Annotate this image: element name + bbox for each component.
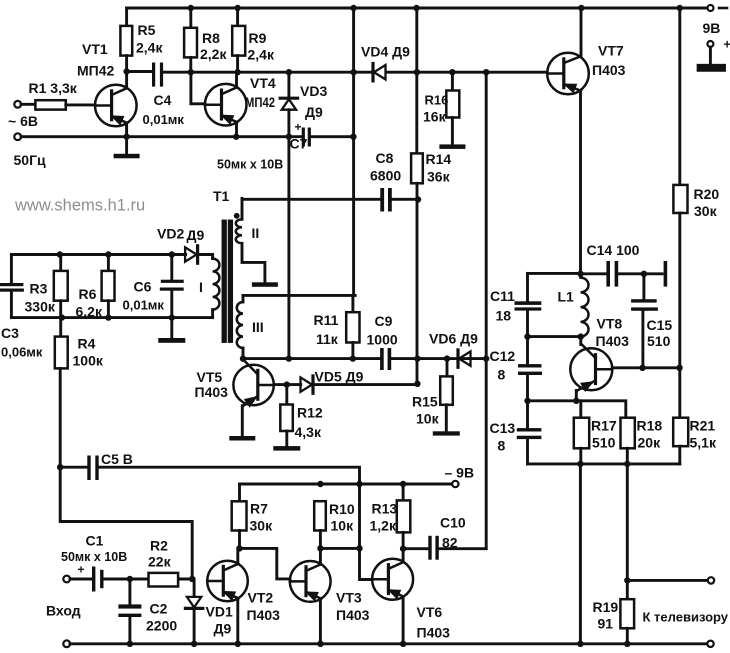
svg-text:Д9: Д9 (214, 621, 232, 637)
svg-text:91: 91 (598, 616, 614, 632)
svg-text:10к: 10к (416, 411, 440, 427)
svg-text:R8: R8 (202, 30, 220, 46)
svg-text:C2: C2 (150, 601, 168, 617)
svg-text:R7: R7 (250, 501, 268, 517)
svg-text:VD1: VD1 (206, 604, 233, 620)
svg-text:МП42: МП42 (77, 63, 115, 79)
svg-text:1000: 1000 (367, 332, 398, 348)
svg-text:П403: П403 (247, 607, 281, 623)
svg-text:R17: R17 (591, 418, 617, 434)
svg-text:VT7: VT7 (598, 43, 624, 59)
svg-text:VD3: VD3 (300, 83, 327, 99)
svg-text:C8: C8 (376, 150, 394, 166)
svg-text:2,2к: 2,2к (200, 46, 227, 62)
svg-text:C10: C10 (440, 515, 466, 531)
svg-text:C15: C15 (647, 317, 673, 333)
svg-text:www.shems.h1.ru: www.shems.h1.ru (14, 197, 145, 215)
svg-text:П403: П403 (596, 333, 630, 349)
svg-text:0,01мк: 0,01мк (143, 112, 185, 127)
svg-text:Д9: Д9 (305, 104, 323, 120)
svg-text:III: III (252, 319, 264, 335)
svg-text:VD2: VD2 (157, 226, 184, 242)
svg-text:R14: R14 (426, 151, 452, 167)
svg-text:П403: П403 (417, 625, 451, 641)
svg-text:R11: R11 (314, 312, 339, 328)
svg-text:C4: C4 (154, 92, 172, 108)
svg-text:VT3: VT3 (336, 590, 362, 606)
svg-text:R12: R12 (297, 405, 323, 421)
svg-text:+: + (295, 120, 302, 134)
svg-text:C11: C11 (490, 288, 515, 304)
svg-text:R9: R9 (249, 30, 267, 46)
svg-text:C1: C1 (86, 533, 104, 549)
svg-text:510: 510 (592, 435, 616, 451)
svg-text:18: 18 (496, 308, 512, 324)
svg-text:I: I (199, 279, 203, 295)
svg-text:VT4: VT4 (250, 75, 276, 91)
svg-text:C9: C9 (375, 313, 393, 329)
svg-text:510: 510 (647, 333, 671, 349)
svg-text:C6: C6 (134, 279, 152, 295)
svg-text:1,2к: 1,2к (370, 518, 397, 534)
svg-text:2,4к: 2,4к (248, 47, 275, 63)
svg-text:VD4 Д9: VD4 Д9 (361, 44, 410, 60)
svg-text:0,01мк: 0,01мк (123, 298, 165, 313)
svg-text:4,3к: 4,3к (295, 424, 322, 440)
svg-text:VD6 Д9: VD6 Д9 (429, 331, 478, 347)
svg-text:C12: C12 (490, 348, 516, 364)
svg-text:0,06мк: 0,06мк (1, 345, 43, 360)
svg-text:R6: R6 (79, 286, 97, 302)
svg-text:6,2к: 6,2к (76, 304, 103, 320)
svg-text:20к: 20к (638, 435, 662, 451)
svg-text:C14 100: C14 100 (587, 242, 640, 258)
svg-text:R21: R21 (690, 418, 716, 434)
svg-text:R3: R3 (30, 281, 48, 297)
svg-text:11к: 11к (316, 331, 339, 347)
svg-text:16к: 16к (423, 109, 447, 125)
svg-text:100к: 100к (73, 353, 104, 369)
svg-text:R13: R13 (372, 501, 398, 517)
svg-text:R15: R15 (412, 394, 438, 410)
svg-text:82: 82 (442, 535, 458, 551)
svg-text:VT5: VT5 (197, 369, 223, 385)
svg-text:~ 6В: ~ 6В (8, 113, 38, 129)
svg-text:VT1: VT1 (82, 41, 108, 57)
svg-text:Вход: Вход (46, 603, 81, 619)
svg-text:VD5 Д9: VD5 Д9 (315, 369, 364, 385)
svg-text:C3: C3 (1, 325, 19, 341)
svg-text:R2: R2 (150, 538, 168, 554)
svg-text:C13: C13 (490, 420, 516, 436)
svg-text:R1 3,3к: R1 3,3к (29, 80, 78, 96)
svg-text:C7: C7 (290, 136, 308, 152)
svg-text:C5 В: C5 В (101, 451, 133, 467)
svg-text:50мк x 10В: 50мк x 10В (217, 158, 283, 172)
svg-text:VT2: VT2 (248, 590, 274, 606)
svg-text:5,1к: 5,1к (690, 435, 717, 451)
svg-text:L1: L1 (558, 289, 575, 305)
svg-text:36к: 36к (427, 169, 451, 185)
svg-text:330к: 330к (25, 299, 56, 315)
svg-text:П403: П403 (195, 384, 229, 400)
svg-text:II: II (252, 225, 260, 241)
svg-text:+: + (78, 563, 85, 577)
svg-text:8: 8 (498, 438, 506, 454)
svg-text:К телевизору: К телевизору (643, 610, 729, 625)
svg-text:8: 8 (498, 367, 506, 383)
svg-text:+: + (724, 38, 730, 52)
svg-text:30к: 30к (694, 203, 718, 219)
svg-text:VT6: VT6 (417, 604, 443, 620)
svg-text:2200: 2200 (146, 618, 177, 634)
svg-text:П403: П403 (336, 607, 370, 623)
svg-text:– 9В: – 9В (445, 465, 475, 481)
svg-text:22к: 22к (148, 554, 172, 570)
svg-text:R18: R18 (637, 418, 663, 434)
svg-text:50Гц: 50Гц (14, 152, 47, 168)
svg-text:VT8: VT8 (597, 316, 623, 332)
svg-text:МП42: МП42 (245, 94, 275, 110)
svg-text:10к: 10к (331, 518, 355, 534)
svg-text:30к: 30к (250, 518, 274, 534)
svg-text:2,4к: 2,4к (136, 40, 163, 56)
svg-text:6800: 6800 (370, 168, 401, 184)
svg-text:R16: R16 (425, 93, 449, 108)
svg-text:П403: П403 (592, 62, 626, 78)
svg-text:R4: R4 (78, 336, 96, 352)
svg-text:50мк x 10В: 50мк x 10В (61, 550, 127, 564)
svg-text:R19: R19 (593, 599, 619, 615)
svg-text:T1: T1 (213, 188, 230, 204)
svg-text:R10: R10 (329, 501, 355, 517)
svg-text:R20: R20 (694, 186, 720, 202)
svg-text:Д9: Д9 (187, 227, 205, 243)
svg-text:9В: 9В (703, 20, 721, 36)
svg-text:R5: R5 (138, 22, 156, 38)
